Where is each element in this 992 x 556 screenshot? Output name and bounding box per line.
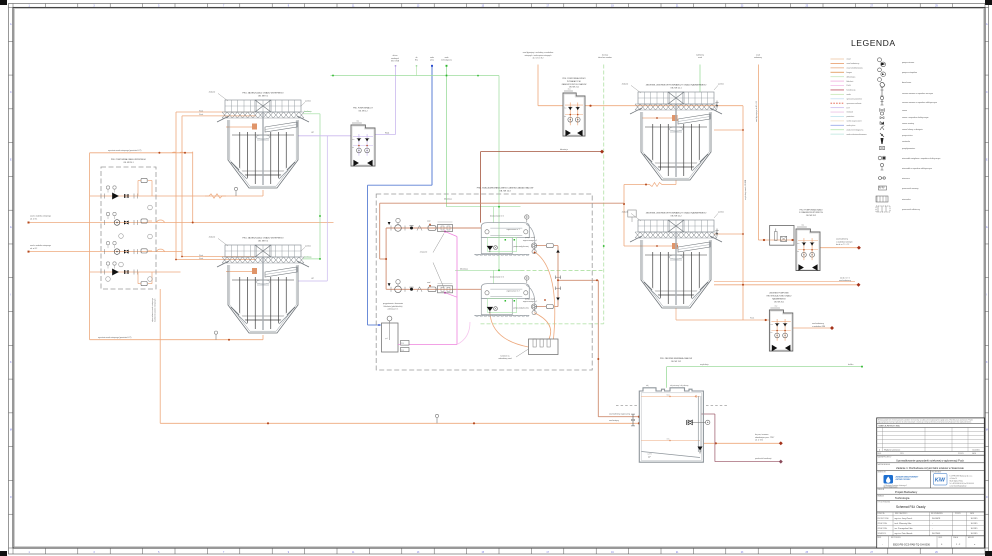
svg-text:OB. NR 26.1: OB. NR 26.1 — [774, 301, 784, 303]
svg-text:max: max — [770, 324, 773, 326]
svg-text:ob. nr 19.2: ob. nr 19.2 — [755, 439, 763, 442]
svg-text:biogaz: biogaz — [847, 72, 852, 74]
svg-text:osad ustabilizowany: osad ustabilizowany — [847, 67, 863, 70]
svg-text:OPIS: OPIS — [900, 453, 904, 455]
svg-text:10.2015: 10.2015 — [971, 518, 978, 520]
svg-text:OB. NR 26.2: OB. NR 26.2 — [806, 215, 816, 217]
svg-text:OB. NR 21.1: OB. NR 21.1 — [569, 87, 579, 89]
svg-text:przelew: przelew — [718, 84, 724, 86]
svg-text:10.2015: 10.2015 — [971, 528, 978, 530]
svg-text:10.2015: 10.2015 — [972, 449, 980, 451]
svg-text:80-00 Gdynia, Polska: 80-00 Gdynia, Polska — [950, 480, 964, 482]
svg-text:M: M — [986, 430, 988, 432]
svg-text:zasuwa nozowa z napedem elektr: zasuwa nozowa z napedem elektrycznym — [902, 101, 937, 104]
svg-text:LKT: LKT — [311, 132, 314, 134]
svg-text:min: min — [667, 438, 670, 440]
svg-text:IS-27/005: IS-27/005 — [932, 533, 940, 535]
svg-text:max: max — [797, 243, 800, 245]
svg-text:mieszarka: mieszarka — [902, 198, 912, 201]
svg-text:flokulantu (polielektrolitu): flokulantu (polielektrolitu) — [384, 305, 403, 308]
svg-text:osadowych: osadowych — [391, 58, 399, 60]
svg-text:wlaz: wlaz — [775, 306, 778, 308]
svg-text:ob. nr 8.2: ob. nr 8.2 — [30, 247, 37, 250]
svg-text:kanalizacja: kanalizacja — [847, 90, 856, 92]
svg-text:osad: osad — [756, 54, 760, 56]
svg-text:przenosnik odbiorczy: przenosnik odbiorczy — [902, 208, 920, 211]
svg-text:10.2015: 10.2015 — [971, 523, 978, 525]
svg-text:deszczowanie nr 2: deszczowanie nr 2 — [490, 276, 504, 279]
svg-text:pompa wody plucznej: pompa wody plucznej — [513, 246, 529, 248]
svg-text:osad plywajacy z ob. 8.1 i 8.2: osad plywajacy z ob. 8.1 i 8.2 — [756, 101, 758, 122]
svg-text:K i W PROJEKT Badawczy Sp. z o: K i W PROJEKT Badawczy Sp. z o.o. — [950, 475, 974, 477]
svg-text:do ob. nr 7.1 i 7.2: do ob. nr 7.1 i 7.2 — [836, 243, 849, 246]
svg-text:osad z osadnika wstepnego: osad z osadnika wstepnego — [30, 215, 51, 218]
svg-text:osad z osadnika wstepnego: osad z osadnika wstepnego — [30, 244, 51, 247]
svg-text:TABELA REWIZYJNA: TABELA REWIZYJNA — [878, 424, 900, 427]
svg-text:REW.: REW. — [878, 453, 882, 455]
svg-text:Woda: Woda — [199, 258, 203, 260]
svg-text:KGO i KGB: KGO i KGB — [391, 61, 399, 63]
svg-text:PeKL: PeKL — [847, 85, 851, 87]
svg-text:wyrzutnia osadu wstepnego (pom: wyrzutnia osadu wstepnego (pominieta LKT… — [98, 336, 132, 339]
svg-text:zawor z napedem elektrycznym: zawor z napedem elektrycznym — [902, 116, 929, 119]
svg-text:inz. Przemyslaw Fibic: inz. Przemyslaw Fibic — [895, 527, 913, 530]
svg-text:Wydanie pierwsze: Wydanie pierwsze — [884, 449, 901, 451]
svg-text:M: M — [10, 430, 12, 432]
svg-text:PODPIS: PODPIS — [958, 453, 964, 455]
svg-text:Zasilanie: Zasilanie — [622, 212, 628, 214]
svg-text:ZBIORNIK POMPOWNI: ZBIORNIK POMPOWNI — [769, 293, 789, 295]
svg-text:zageszczacz nr 1: zageszczacz nr 1 — [506, 228, 519, 231]
svg-text:osad nadmierny zageszczony: osad nadmierny zageszczony — [609, 414, 630, 416]
svg-text:sprezone zasilanie: sprezone zasilanie — [847, 103, 862, 105]
svg-text:PRU. ZAGESZCZACZ OSADU WSTEPNE: PRU. ZAGESZCZACZ OSADU WSTEPNEGO — [242, 236, 284, 239]
svg-text:84-120 Wladyslawowo: 84-120 Wladyslawowo — [884, 487, 898, 489]
svg-text:osad nadmierny: osad nadmierny — [839, 279, 851, 282]
svg-text:z osadnikow wtornych: z osadnikow wtornych — [836, 240, 853, 243]
svg-text:min: min — [564, 116, 566, 118]
svg-text:OB. NR 13.2: OB. NR 13.2 — [671, 361, 681, 363]
svg-text:przelew: przelew — [305, 245, 311, 247]
svg-text:Uporzadkowanie gospodarki scie: Uporzadkowanie gospodarki sciekowej w ag… — [896, 459, 964, 463]
svg-text:zageszczonego nr 1: zageszczonego nr 1 — [523, 240, 537, 242]
svg-text:wlaz: wlaz — [801, 225, 804, 227]
svg-text:przygotowanie i dozowanie: przygotowanie i dozowanie — [383, 302, 403, 305]
svg-text:woda: woda — [430, 57, 434, 59]
svg-text:do stacji: do stacji — [602, 53, 609, 56]
svg-text:Zasilanie: Zasilanie — [209, 92, 215, 94]
svg-text:OB. NR 20.1: OB. NR 20.1 — [123, 162, 133, 164]
svg-text:REW.: REW. — [939, 537, 943, 539]
svg-text:PRU. ZAGESZCZACZ OSADU WSTEPNE: PRU. ZAGESZCZACZ OSADU WSTEPNEGO — [242, 91, 284, 94]
svg-text:O: O — [986, 497, 988, 499]
svg-text:osad plywajacy i zeskrobiny z: osad plywajacy i zeskrobiny z osadnikow — [523, 51, 554, 54]
svg-text:pompa wirowa: pompa wirowa — [902, 61, 915, 64]
svg-text:PRU. POMPOWNIA OSADU WSTEPNEGO: PRU. POMPOWNIA OSADU WSTEPNEGO — [111, 158, 147, 161]
svg-text:OB. NR 11.2: OB. NR 11.2 — [670, 215, 682, 217]
svg-text:IS-01/078: IS-01/078 — [932, 518, 940, 520]
svg-text:OB. NR 9.1: OB. NR 9.1 — [258, 95, 269, 97]
svg-text:PRU. POMPOWNIA OSADU: PRU. POMPOWNIA OSADU — [800, 208, 824, 211]
svg-text:kanalizacja: kanalizacja — [304, 256, 312, 258]
svg-text:osad: osad — [427, 221, 430, 223]
svg-text:recyrkulacja: recyrkulacja — [700, 364, 709, 366]
svg-text:wlaz: wlaz — [356, 121, 359, 123]
svg-text:INWESTOR: INWESTOR — [878, 472, 887, 474]
svg-text:woda pitna: woda pitna — [847, 124, 856, 127]
svg-text:ZBIORNIK, ZBIORNIK WYROWNAWCZY: ZBIORNIK, ZBIORNIK WYROWNAWCZY OSADU NAD… — [646, 211, 707, 214]
svg-text:ZBIORNIK, ZBIORNIK WYROWNAWCZY: ZBIORNIK, ZBIORNIK WYROWNAWCZY OSADU NAD… — [646, 83, 707, 86]
svg-text:woda technologiczna: woda technologiczna — [847, 128, 864, 131]
svg-text:Tel. +48 58 000 00 00, Fax 58: Tel. +48 58 000 00 00, Fax 58 00 00 00 — [950, 483, 974, 485]
svg-text:ul. Polna 16: ul. Polna 16 — [950, 478, 958, 480]
svg-text:przeplywomierz: przeplywomierz — [902, 147, 915, 150]
svg-text:nadmierny: nadmierny — [696, 53, 704, 56]
svg-text:10.2015: 10.2015 — [971, 533, 978, 535]
svg-text:osad: osad — [427, 282, 430, 284]
svg-text:zawor kulowy z dzwignia: zawor kulowy z dzwignia — [902, 128, 924, 131]
svg-text:REW.: REW. — [878, 537, 882, 539]
svg-text:LEGENDA: LEGENDA — [851, 38, 896, 48]
svg-text:wyrzutnia osadu wstepnego (pom: wyrzutnia osadu wstepnego (pominieta LKT… — [108, 149, 142, 152]
svg-text:max: max — [352, 139, 355, 141]
svg-text:mieszadlo smiglowe z napedem e: mieszadlo smiglowe z napedem elektryczny… — [902, 157, 941, 160]
svg-text:z osadnikow 26M: z osadnikow 26M — [812, 326, 826, 328]
svg-text:mieszacz: mieszacz — [902, 178, 910, 180]
svg-text:sprezone powietrze: sprezone powietrze — [847, 97, 863, 100]
svg-text:PRU. POMPOWNIA LKT: PRU. POMPOWNIA LKT — [353, 107, 374, 110]
svg-text:max: max — [666, 394, 669, 396]
svg-text:ob. nr 8.1: ob. nr 8.1 — [30, 217, 37, 220]
svg-text:scieki oczyszczone: scieki oczyszczone — [847, 121, 862, 123]
svg-text:min: min — [770, 332, 772, 334]
svg-text:osad nadmierny: osad nadmierny — [847, 63, 860, 65]
svg-text:Woda: Woda — [385, 133, 389, 135]
svg-text:Technologia: Technologia — [895, 496, 910, 500]
svg-text:powietrze: powietrze — [847, 115, 855, 118]
svg-text:zmywanie: zmywanie — [420, 251, 428, 253]
svg-text:PRU. ZBIORNIK MIESZANIA OSADOW: PRU. ZBIORNIK MIESZANIA OSADOW — [660, 357, 692, 360]
svg-text:G: G — [986, 227, 988, 229]
svg-text:mgr inz. Jerzy Puech: mgr inz. Jerzy Puech — [895, 517, 913, 520]
svg-text:osad nadmierny: osad nadmierny — [836, 238, 848, 241]
svg-text:ZATOKI PUCKIEJ: ZATOKI PUCKIEJ — [895, 479, 912, 481]
svg-text:do zbiornika osadow mieszanych: do zbiornika osadow mieszanych — [155, 298, 157, 322]
svg-text:nadmierny: nadmierny — [754, 56, 762, 59]
svg-text:Woda: Woda — [199, 114, 203, 116]
svg-text:woda: woda — [847, 94, 851, 96]
svg-text:RECYRKULACYJNEJ OSADU: RECYRKULACYJNEJ OSADU — [767, 295, 792, 298]
svg-text:ob. nr 8.1 i 8.2: ob. nr 8.1 i 8.2 — [533, 57, 544, 60]
svg-text:kontener na: kontener na — [501, 354, 510, 357]
svg-text:OB. NR 11.1: OB. NR 11.1 — [670, 87, 682, 89]
svg-text:osad: osad — [847, 59, 851, 61]
svg-text:wstepnych i zaskorupien wstepn: wstepnych i zaskorupien wstepnych — [525, 54, 552, 57]
svg-text:do ob. nr 7.1: do ob. nr 7.1 — [840, 276, 850, 279]
svg-text:flokulant: flokulant — [847, 80, 854, 83]
svg-text:zasuwa nozowa z napedem reczny: zasuwa nozowa z napedem recznym — [902, 92, 933, 95]
svg-text:polistacja nr 1: polistacja nr 1 — [388, 308, 398, 311]
svg-text:do: do — [416, 57, 418, 59]
svg-text:Z OSADNIKOW WTORNYCH: Z OSADNIKOW WTORNYCH — [799, 211, 824, 214]
svg-text:Woda: Woda — [750, 318, 754, 320]
svg-text:deszczowanie nr 1: deszczowanie nr 1 — [490, 214, 504, 217]
svg-text:recyrkulacja osadu, NR 26M: recyrkulacja osadu, NR 26M — [745, 179, 747, 200]
svg-text:PLYWAJACYCH I: PLYWAJACYCH I — [567, 80, 582, 83]
svg-text:i = 5%: i = 5% — [647, 453, 652, 455]
svg-text:zawor zwrotny: zawor zwrotny — [902, 122, 914, 125]
svg-text:Zasilanie: Zasilanie — [622, 84, 628, 86]
svg-text:odwodniony osad: odwodniony osad — [498, 358, 511, 360]
svg-text:PODPIS: PODPIS — [955, 513, 961, 515]
svg-text:pompa zatapialna: pompa zatapialna — [902, 71, 918, 74]
svg-text:max: max — [564, 107, 567, 109]
svg-text:metanol: metanol — [847, 111, 854, 114]
svg-text:zageszczonego nr 2: zageszczonego nr 2 — [523, 301, 537, 303]
svg-text:zastawka: zastawka — [902, 140, 911, 143]
svg-text:do pras, tasmowa: do pras, tasmowa — [755, 433, 768, 436]
svg-text:Zasilanie: Zasilanie — [209, 237, 215, 239]
svg-text:OB. NR 2.2: OB. NR 2.2 — [358, 111, 367, 113]
svg-text:PRU. STACJA MECHANICZNEGO ZAGE: PRU. STACJA MECHANICZNEGO ZAGESZCZANIA O… — [477, 187, 534, 190]
svg-text:Schemat P&i: Osady: Schemat P&i: Osady — [896, 505, 926, 509]
svg-text:przelew do kanalizacji: przelew do kanalizacji — [755, 457, 772, 460]
svg-text:dmuchaw osadow: dmuchaw osadow — [598, 57, 612, 59]
svg-text:OB. NR 9.2: OB. NR 9.2 — [258, 240, 269, 242]
svg-text:woda zdemineralizowana: woda zdemineralizowana — [847, 134, 867, 136]
svg-text:zawor: zawor — [902, 109, 907, 112]
svg-text:LKT: LKT — [311, 278, 314, 280]
svg-text:odwadniajaca prac. 'PRO': odwadniajaca prac. 'PRO' — [755, 436, 775, 439]
svg-text:dekantacja: dekantacja — [847, 75, 856, 78]
svg-text:O: O — [10, 497, 12, 499]
svg-text:Woda: Woda — [199, 110, 203, 112]
svg-text:przelew: przelew — [718, 212, 724, 214]
svg-text:zageszczacz nr 2: zageszczacz nr 2 — [506, 289, 519, 292]
svg-text:min: min — [352, 147, 354, 149]
svg-text:pompa osadu: pompa osadu — [525, 237, 535, 239]
svg-text:PD1: PD1 — [401, 343, 404, 345]
svg-text:mieszadlo z napedem elektryczn: mieszadlo z napedem elektrycznym — [902, 167, 932, 170]
svg-text:kanalizacja: kanalizacja — [304, 111, 312, 113]
svg-text:Zadanie 1: Rozbudowa oczyszcza: Zadanie 1: Rozbudowa oczyszczalni scieko… — [896, 466, 964, 470]
svg-text:osad nadmierny: osad nadmierny — [812, 322, 824, 325]
svg-text:TYTUL RYSUNKU: TYTUL RYSUNKU — [878, 501, 890, 503]
svg-text:przelew: przelew — [305, 100, 311, 102]
svg-text:PRU. POMPOWNIA CZESCI: PRU. POMPOWNIA CZESCI — [562, 77, 586, 80]
svg-text:G: G — [10, 227, 12, 229]
svg-text:E820-PB-OCS-PAB-TQ-SH-0006: E820-PB-OCS-PAB-TQ-SH-0006 — [893, 543, 931, 546]
svg-text:pompa osadu: pompa osadu — [525, 299, 535, 301]
svg-text:osad: osad — [698, 57, 702, 59]
svg-text:tech. Wincenty Glier: tech. Wincenty Glier — [895, 522, 912, 525]
svg-text:NADMIERNEGO: NADMIERNEGO — [772, 297, 786, 300]
svg-text:OB. NR 10.3: OB. NR 10.3 — [499, 191, 511, 193]
svg-text:przepustnica: przepustnica — [902, 134, 914, 137]
svg-text:woda: woda — [445, 57, 449, 59]
svg-text:Projekt Budowlany: Projekt Budowlany — [895, 490, 918, 494]
svg-text:KiW: KiW — [935, 477, 946, 483]
svg-text:Woda: Woda — [199, 255, 203, 257]
svg-text:przenosnik wezowy: przenosnik wezowy — [902, 187, 918, 190]
svg-text:wlaz: wlaz — [568, 89, 571, 91]
svg-text:mgr inz. Piotr Gburek: mgr inz. Piotr Gburek — [895, 532, 913, 535]
svg-text:pompa wody plucznej: pompa wody plucznej — [513, 308, 529, 310]
svg-text:PD2: PD2 — [401, 350, 404, 352]
svg-text:NR RYSUNKU: NR RYSUNKU — [891, 537, 901, 539]
svg-text:ZAGESZCZONYCH OSADOW: ZAGESZCZONYCH OSADOW — [562, 83, 587, 86]
svg-text:dmuchawa: dmuchawa — [902, 82, 912, 84]
svg-text:min: min — [797, 251, 799, 253]
